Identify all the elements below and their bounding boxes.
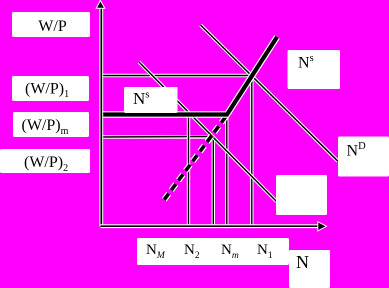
label box NS left — [124, 87, 178, 113]
labor demand curve ND2 (right, thin diagonal) — [201, 25, 339, 161]
bottom labels strip N_M N_2 N_m N_1 — [137, 238, 289, 265]
empty label box — [276, 175, 327, 215]
bold kinked effective labor supply NS — [101, 37, 277, 115]
x-axis N — [101, 222, 327, 231]
label box (W/P)m — [13, 112, 89, 137]
label box N (x-axis label) — [289, 250, 330, 288]
label box NS right — [288, 50, 341, 89]
label box W/P (axis label) — [12, 12, 90, 37]
svg-text:W/P: W/P — [38, 18, 67, 35]
label box ND — [338, 137, 389, 177]
svg-text:N: N — [296, 252, 309, 272]
gridline (W/P)1 level, y=75.5 — [101, 74, 253, 77]
vertical gridline N2 at x=188.5 — [187, 116, 190, 226]
dashed NS segment below minimum wage — [164, 115, 227, 200]
vertical gridline Nm at x=226.8 — [225, 116, 228, 226]
vertical gridline at x=213.3 — [212, 137, 215, 226]
vertical gridline N1 at x=251.8 — [250, 76, 253, 226]
label box (W/P)1 — [12, 76, 89, 101]
svg-text:(W/P)1: (W/P)1 — [25, 81, 69, 101]
gridline (W/P)2 level, y=136.5 — [101, 135, 213, 139]
y-axis W/P — [96, 1, 105, 227]
labor demand curve ND1 (left, thin diagonal) — [139, 62, 277, 202]
label box (W/P)2 — [0, 149, 90, 174]
